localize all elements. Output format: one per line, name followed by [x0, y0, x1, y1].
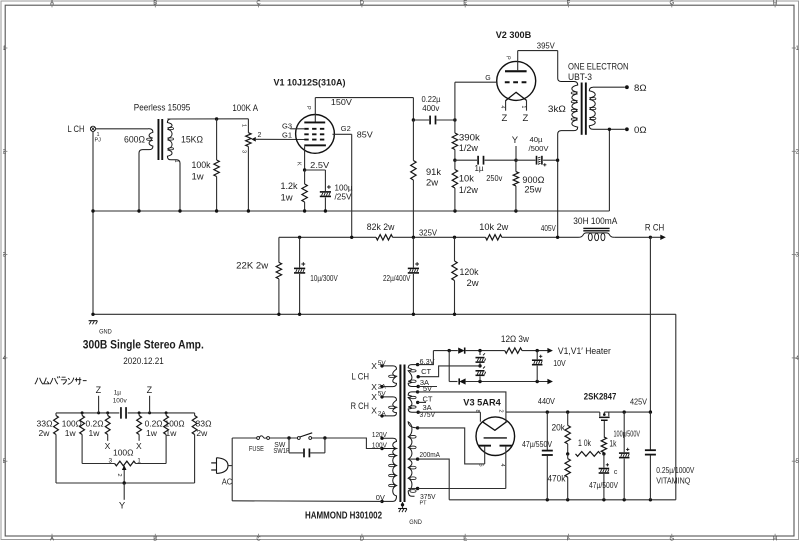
wire plate to OPT	[557, 51, 559, 78]
V3 filament	[482, 422, 506, 431]
junction cap1	[478, 349, 481, 352]
junction 47u/550V	[546, 410, 549, 413]
svg-text:L CH: L CH	[352, 372, 370, 382]
transformer T1 core	[158, 119, 160, 160]
junction caps midpoint	[478, 364, 481, 367]
wire 425V	[604, 411, 650, 413]
wire grid down to coupling cap	[454, 82, 456, 120]
svg-text:33Ω: 33Ω	[37, 418, 53, 428]
junction G2 feed	[350, 236, 353, 239]
svg-text:V3 5AR4: V3 5AR4	[463, 398, 501, 409]
svg-text:4: 4	[499, 106, 505, 109]
svg-text:FUSE: FUSE	[249, 444, 264, 453]
junction 425V riser	[649, 410, 652, 413]
svg-text:425V: 425V	[630, 398, 648, 407]
svg-text:375V: 375V	[420, 410, 436, 419]
junction 1.2k	[303, 209, 306, 212]
pot wiper arrow	[251, 137, 256, 142]
svg-text:1w: 1w	[281, 193, 293, 204]
svg-text:X: X	[371, 406, 377, 416]
wire 6.3V to rectifier	[418, 351, 434, 365]
capacitor 100u/25V cathode bypass	[305, 169, 326, 171]
transformer T1 primary 600ohm	[139, 129, 153, 211]
svg-text:1w: 1w	[89, 428, 101, 438]
V2 grid dashed	[505, 81, 527, 83]
capacitor 1u 250v	[455, 159, 477, 161]
svg-text:1 0k: 1 0k	[578, 438, 591, 448]
V1 cathode	[304, 144, 326, 146]
doubler capacitor C1	[479, 351, 481, 355]
resistor 10k 1/2w	[454, 160, 456, 169]
svg-text:300B Single Stereo Amp.: 300B Single Stereo Amp.	[83, 339, 204, 351]
node Y	[514, 159, 517, 162]
svg-text:40µ: 40µ	[530, 135, 544, 144]
PT primary 100/120V	[382, 438, 397, 501]
V3 cathode bar	[484, 437, 507, 439]
svg-text:3kΩ: 3kΩ	[548, 104, 566, 115]
resistor 10k gate	[576, 452, 601, 457]
resistor 12ohm 3w	[505, 348, 522, 353]
junction 10k half w	[453, 209, 456, 212]
capacitor 10V filter	[536, 351, 538, 360]
svg-text:100Ω: 100Ω	[113, 447, 134, 457]
junction plate node	[412, 118, 415, 121]
svg-text:82k 2w: 82k 2w	[367, 222, 395, 233]
V2 filament stubs to Z	[505, 100, 507, 111]
svg-text:G2: G2	[341, 126, 351, 133]
svg-text:47µ/550V: 47µ/550V	[522, 440, 553, 449]
svg-text:5V: 5V	[378, 360, 387, 367]
PT winding 5V L CH	[382, 366, 397, 387]
wire switch to 100V tap	[312, 438, 382, 449]
PT winding 5V R CH	[382, 397, 397, 416]
junction 100u	[324, 209, 327, 212]
main ground rail	[93, 313, 676, 315]
svg-text:150V: 150V	[331, 97, 352, 107]
capacitor 1u 100v	[120, 407, 122, 419]
resistor 82k 2w	[376, 235, 393, 240]
doubler capacitor C2	[476, 370, 485, 372]
svg-text:5V: 5V	[378, 390, 387, 397]
wire CT to caps midpoint	[418, 366, 480, 377]
svg-text:2w: 2w	[196, 428, 208, 438]
resistor 22K 2w	[278, 237, 280, 262]
tube V2 envelope	[497, 61, 536, 100]
resistor 1.2k 1w cathode	[304, 170, 306, 184]
svg-text:33Ω: 33Ω	[196, 418, 212, 428]
svg-text:1w: 1w	[65, 428, 77, 438]
capacitor 100u/500V	[623, 412, 625, 452]
V2 plate	[505, 70, 527, 72]
resistor 20k	[567, 412, 569, 425]
resistor 33 ohm 2w left	[55, 413, 57, 416]
HV taps	[408, 458, 417, 460]
tap 120V	[380, 437, 383, 440]
svg-text:GND: GND	[409, 519, 422, 526]
svg-text:405V: 405V	[541, 224, 557, 233]
junction 120k	[453, 236, 456, 239]
svg-text:GND: GND	[99, 329, 112, 336]
junction 390k/10k/1u	[453, 159, 456, 162]
svg-text:10V: 10V	[553, 359, 566, 368]
svg-text:X: X	[136, 441, 142, 451]
junction 10u	[298, 236, 301, 239]
svg-text:100µ: 100µ	[335, 183, 353, 192]
svg-text:Z: Z	[523, 113, 529, 124]
svg-text:1µ: 1µ	[114, 389, 122, 396]
node Y stub	[123, 483, 125, 500]
svg-text:X: X	[105, 441, 111, 451]
resistor 33 ohm 2w right	[194, 413, 196, 416]
svg-text:1/2w: 1/2w	[459, 185, 478, 196]
svg-text:395V: 395V	[537, 41, 556, 50]
junction 10V cap bottom	[536, 380, 539, 383]
svg-text:R CH: R CH	[645, 222, 665, 233]
svg-text:c: c	[614, 469, 618, 476]
svg-text:1k: 1k	[609, 439, 616, 450]
junction primary return	[137, 209, 140, 212]
svg-text:Z: Z	[502, 113, 508, 124]
svg-text:ONE ELECTRON: ONE ELECTRON	[568, 61, 629, 72]
svg-text:/25V: /25V	[335, 193, 353, 202]
svg-text:Z: Z	[96, 385, 102, 395]
svg-text:2w: 2w	[467, 278, 479, 289]
junction 100u/500V	[623, 410, 626, 413]
transformer T1 secondary 15K	[167, 119, 180, 211]
junction 900ohm	[514, 209, 517, 212]
svg-text:PT: PT	[420, 501, 428, 507]
svg-text:1w: 1w	[192, 171, 204, 182]
svg-text:3: 3	[241, 150, 247, 153]
capacitor 40u/500V ultrapath	[516, 159, 536, 161]
svg-text:V1 10J12S(310A): V1 10J12S(310A)	[274, 77, 346, 88]
wire G2 down to divider	[351, 134, 353, 237]
svg-text:2.5V: 2.5V	[310, 160, 329, 170]
resistor 100k 1w	[216, 119, 218, 160]
svg-text:Y: Y	[512, 135, 519, 146]
resistor 91k 2w plate load	[412, 120, 414, 161]
wire jack to transformer primary	[96, 128, 148, 130]
svg-text:390k: 390k	[459, 133, 480, 144]
wire 5V to V3 filament	[418, 392, 506, 412]
svg-text:Z: Z	[147, 385, 153, 395]
svg-text:100Ω: 100Ω	[62, 418, 82, 428]
svg-text:Y: Y	[119, 500, 126, 511]
arrow heater +	[547, 348, 553, 353]
svg-text:22K 2w: 22K 2w	[236, 261, 268, 272]
0 ohm terminal	[593, 128, 625, 130]
PT winding HV 375-0-375	[408, 422, 417, 497]
svg-text:100k: 100k	[192, 160, 211, 171]
diode D1	[458, 348, 464, 354]
svg-text:1.2k: 1.2k	[281, 181, 298, 192]
B+ 325V rail	[279, 236, 376, 238]
junction V2 grid node	[453, 118, 456, 121]
svg-text:PJ: PJ	[95, 138, 102, 144]
svg-text:1: 1	[241, 124, 247, 127]
wire 425V riser	[649, 237, 651, 412]
svg-text:20k: 20k	[552, 423, 566, 433]
svg-text:2w: 2w	[39, 428, 51, 438]
svg-text:600Ω: 600Ω	[124, 135, 145, 146]
V3 plates	[478, 445, 491, 447]
node Z stubs	[98, 396, 100, 413]
junction 10V cap	[536, 349, 539, 352]
svg-text:2: 2	[498, 410, 504, 413]
junction OPT return 405V	[556, 236, 559, 239]
arrow R CH	[660, 235, 666, 240]
svg-text:1µ: 1µ	[475, 164, 484, 173]
resistor 900ohm 25w	[515, 160, 517, 171]
stub 6.3V 3A	[418, 386, 437, 388]
PT winding 5V rectifier	[408, 392, 417, 412]
arrow heater -	[547, 379, 553, 384]
junction pot	[247, 209, 250, 212]
capacitor 10u/300V	[299, 237, 301, 267]
svg-text:10k 2w: 10k 2w	[479, 222, 508, 233]
svg-text:V1,V1′ Heater: V1,V1′ Heater	[558, 346, 611, 357]
junction cathode	[303, 168, 306, 171]
svg-text:91k: 91k	[426, 167, 441, 178]
svg-text:10µ/300V: 10µ/300V	[310, 274, 338, 283]
wire ground down to GND rail	[92, 211, 94, 314]
junction rail/jack	[91, 209, 94, 212]
svg-text:100V: 100V	[372, 440, 387, 449]
wire wiper to V1 G1	[256, 138, 305, 140]
svg-text:R CH: R CH	[351, 401, 369, 411]
resistor 1k	[601, 437, 606, 453]
input jack PJ	[90, 126, 95, 131]
wire jack ground down	[92, 131, 94, 211]
svg-text:V2 300B: V2 300B	[496, 30, 532, 41]
junction 0 ohm return	[608, 128, 611, 131]
tube V1 envelope	[296, 114, 335, 153]
capacitor 47u/550V	[546, 412, 548, 450]
V2 filament	[506, 92, 527, 100]
V1 grids dashed	[304, 128, 325, 130]
8 ohm terminal	[593, 86, 625, 88]
capacitor 22u/400V	[412, 237, 414, 267]
V1 cathode lead	[304, 146, 306, 170]
svg-text:HAMMOND H301002: HAMMOND H301002	[305, 510, 382, 522]
svg-text:470k: 470k	[547, 474, 565, 485]
junction cap2	[478, 380, 481, 383]
svg-text:85V: 85V	[357, 129, 373, 139]
wire V1 plate 150V	[315, 97, 413, 99]
junction GND	[91, 313, 94, 316]
switch SW1P	[297, 437, 300, 440]
svg-text:47µ/500V: 47µ/500V	[589, 481, 619, 490]
wire HV bottom to V3 plate 4	[418, 488, 506, 490]
svg-text:G1: G1	[282, 133, 292, 140]
heater rectifier lower line	[448, 351, 450, 382]
junction switch bypass	[287, 436, 290, 439]
svg-text:1/2w: 1/2w	[459, 143, 478, 154]
junction R CH feed	[649, 236, 652, 239]
diode D2	[459, 378, 465, 384]
svg-text:Peerless 15095: Peerless 15095	[134, 103, 191, 114]
tap 0V	[380, 500, 383, 503]
PSU ground rail	[449, 499, 676, 501]
heater rectifier upper line	[433, 350, 457, 352]
svg-text:3: 3	[109, 457, 113, 464]
wire HV top to V3 plate 6	[418, 428, 485, 464]
wire 5V 3A to V3 pin8	[418, 411, 480, 413]
svg-text:2: 2	[258, 132, 262, 139]
svg-text:22µ/400V: 22µ/400V	[383, 274, 411, 283]
junction wiper	[123, 481, 126, 484]
junction AC to diodes	[448, 349, 451, 352]
svg-text:30H 100mA: 30H 100mA	[573, 216, 618, 227]
svg-text:2: 2	[116, 474, 122, 477]
svg-text:K: K	[296, 162, 302, 166]
PT ground	[402, 502, 404, 508]
svg-text:100v: 100v	[113, 398, 128, 405]
svg-text:X: X	[371, 382, 377, 392]
svg-text:CT: CT	[421, 367, 431, 376]
tube V3 envelope	[476, 417, 515, 456]
V3 plate leads	[484, 447, 486, 464]
hum balancer bottom rail	[56, 482, 195, 484]
svg-text:AC: AC	[222, 478, 233, 487]
switch bypass capacitor	[288, 438, 290, 453]
svg-text:X: X	[371, 392, 377, 402]
resistor 470k	[567, 454, 569, 459]
svg-text:8Ω: 8Ω	[634, 83, 647, 94]
hum balancer top rail	[56, 412, 119, 414]
svg-text:X: X	[371, 361, 377, 371]
power transformer core	[399, 365, 401, 503]
svg-text:P: P	[505, 56, 511, 60]
label hum balancer (katakana drawn)	[35, 376, 87, 384]
svg-text:2w: 2w	[426, 178, 438, 189]
wire 200mA CT to ground rail	[418, 459, 450, 500]
svg-text:VITAMINQ: VITAMINQ	[656, 477, 690, 486]
wire AC vertical	[231, 438, 233, 501]
resistor 100 ohm 1w right	[165, 413, 167, 416]
capacitor 0.22u/400v coupling	[412, 98, 414, 120]
svg-text:0V: 0V	[376, 493, 385, 502]
svg-text:325V: 325V	[419, 228, 438, 237]
junction 40u to OPT return	[556, 159, 559, 162]
wire secondary to pot	[167, 118, 248, 120]
PT winding 6.3V	[408, 365, 417, 387]
V1 G3 stub	[290, 128, 304, 130]
svg-text:200mA: 200mA	[420, 450, 441, 459]
svg-text:12Ω 3w: 12Ω 3w	[501, 334, 529, 345]
potentiometer 100 ohm	[82, 463, 115, 465]
svg-text:2SK2847: 2SK2847	[584, 392, 617, 403]
svg-text:P: P	[305, 106, 311, 110]
svg-text:0.2Ω: 0.2Ω	[86, 418, 104, 428]
svg-text:25w: 25w	[524, 185, 541, 196]
svg-text:440V: 440V	[538, 397, 556, 406]
resistor 100 ohm 1w left	[81, 413, 83, 416]
svg-text:1: 1	[173, 160, 179, 163]
svg-text:8: 8	[474, 410, 480, 413]
svg-text:L CH: L CH	[68, 124, 85, 135]
resistor 0.2 ohm 1w left	[107, 413, 109, 416]
wire signal ground rail	[93, 210, 609, 212]
svg-text:1: 1	[520, 106, 526, 109]
pot wiper	[122, 465, 127, 470]
stub 5V CT	[418, 401, 426, 403]
V3 pin stubs	[479, 412, 481, 422]
OPT secondary	[589, 87, 595, 129]
V2 grid lead	[455, 81, 497, 83]
wire ground to PSU rail	[675, 314, 677, 500]
junction 91k/22u 325V	[412, 236, 415, 239]
svg-text:0.2Ω: 0.2Ω	[145, 418, 163, 428]
svg-text:400v: 400v	[422, 104, 439, 113]
svg-text:2020.12.21: 2020.12.21	[123, 356, 164, 367]
svg-text:120V: 120V	[372, 430, 387, 439]
svg-text:1w: 1w	[146, 428, 158, 438]
svg-text:1: 1	[137, 457, 141, 464]
svg-text:1w: 1w	[166, 428, 178, 438]
V1 G2 lead	[333, 133, 352, 135]
svg-text:100K A: 100K A	[232, 103, 258, 114]
svg-text:10k: 10k	[459, 173, 474, 184]
wire rail up to 0ohm tap	[608, 129, 610, 211]
svg-text:4: 4	[499, 464, 505, 467]
svg-text:0.25µ/1000V: 0.25µ/1000V	[656, 466, 695, 475]
wire AC neutral to 0V	[232, 500, 382, 503]
junction 20k	[566, 410, 569, 413]
svg-text:100µ/500V: 100µ/500V	[614, 430, 641, 439]
resistor 0.2 ohm 1w right	[138, 413, 140, 416]
capacitor 47u/500V	[603, 454, 605, 468]
resistor 10k 2w	[486, 235, 502, 240]
svg-text:0.22µ: 0.22µ	[422, 95, 441, 104]
svg-text:250v: 250v	[486, 174, 502, 183]
junction secondary return	[178, 209, 181, 212]
fuse	[232, 437, 257, 439]
resistor 120k 2w	[454, 237, 456, 261]
junction 100k	[215, 209, 218, 212]
tap 100V	[380, 447, 383, 450]
capacitor 0.25u/1000V	[649, 412, 651, 450]
svg-text:120k: 120k	[460, 267, 479, 278]
resistor 390k 1/2w grid leak	[454, 120, 456, 133]
svg-text:/500V: /500V	[529, 144, 549, 153]
junction secondary/100k	[215, 117, 218, 120]
svg-text:2A: 2A	[378, 383, 387, 390]
OPT core	[581, 83, 583, 135]
svg-text:100Ω: 100Ω	[165, 418, 185, 428]
svg-text:G: G	[485, 75, 490, 82]
440V line	[506, 411, 600, 413]
svg-text:15KΩ: 15KΩ	[181, 135, 203, 146]
svg-text:G3: G3	[282, 123, 292, 130]
V2 plate lead 395V	[517, 51, 519, 71]
svg-text:0Ω: 0Ω	[634, 125, 647, 136]
svg-text:2A: 2A	[378, 411, 387, 418]
V1 plate	[304, 122, 325, 124]
V1 plate lead	[314, 98, 316, 122]
AC plug	[217, 458, 229, 474]
svg-text:SW1P: SW1P	[273, 448, 290, 455]
ground symbol	[89, 320, 98, 322]
